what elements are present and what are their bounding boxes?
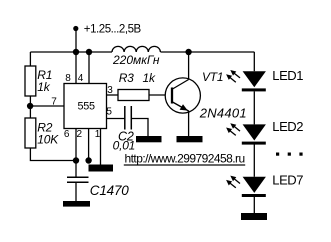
svg-text:220мкГн: 220мкГн [112, 53, 160, 67]
svg-text:2N4401: 2N4401 [199, 106, 247, 121]
svg-text:+1.25...2,5В: +1.25...2,5В [84, 23, 142, 35]
svg-text:R3: R3 [119, 71, 134, 85]
svg-text:7: 7 [51, 96, 57, 107]
svg-text:6: 6 [64, 129, 70, 140]
svg-text:VT1: VT1 [202, 70, 223, 84]
svg-text:10K: 10K [37, 133, 59, 147]
svg-text:8: 8 [65, 73, 71, 84]
svg-text:555: 555 [78, 100, 96, 112]
svg-text:LED7: LED7 [272, 173, 303, 188]
svg-text:4: 4 [78, 73, 84, 84]
svg-text:2: 2 [77, 129, 83, 140]
svg-text:5: 5 [106, 107, 112, 118]
svg-text:http://www.299792458.ru: http://www.299792458.ru [125, 151, 245, 165]
svg-text:0,01: 0,01 [113, 138, 136, 152]
svg-text:1k: 1k [143, 71, 156, 85]
svg-text:1: 1 [95, 129, 101, 140]
svg-text:3: 3 [107, 85, 113, 96]
svg-text:C1470: C1470 [90, 183, 129, 198]
svg-text:LED1: LED1 [272, 68, 303, 83]
svg-text:1k: 1k [37, 80, 50, 94]
svg-text:LED2: LED2 [272, 119, 303, 134]
